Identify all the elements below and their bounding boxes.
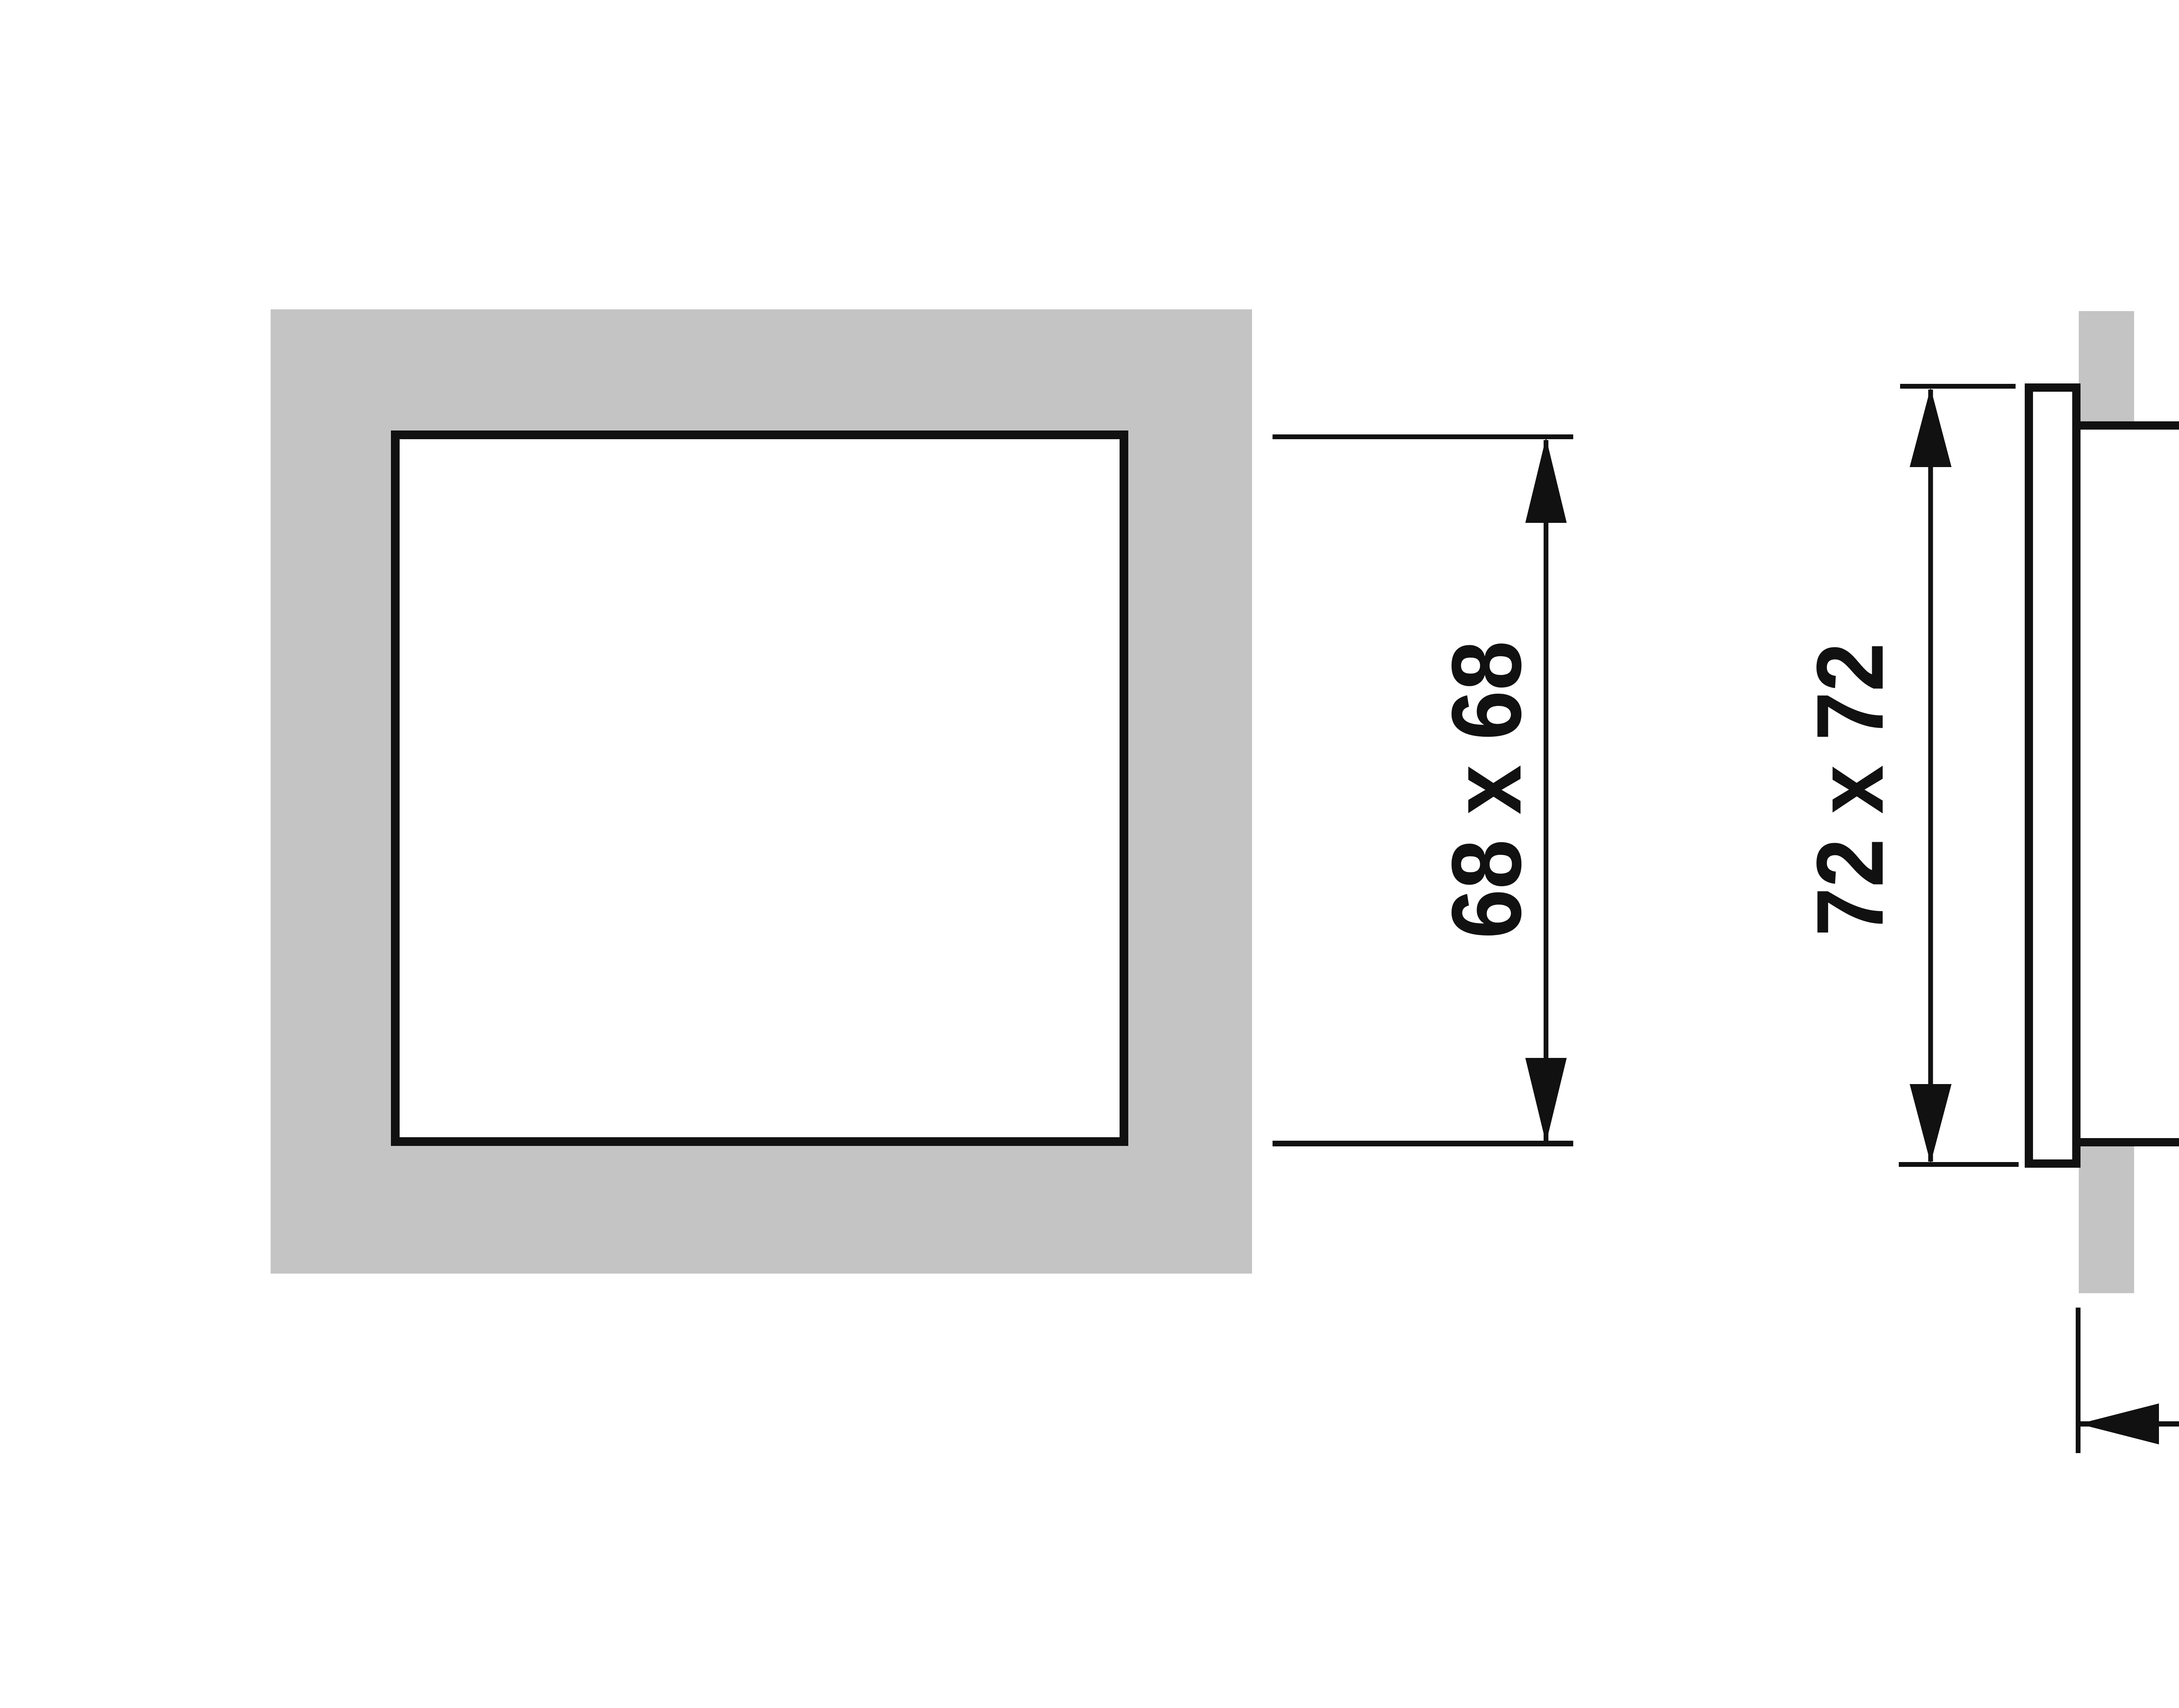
- svg-text:72 x 72: 72 x 72: [1797, 643, 1903, 936]
- svg-text:68 x 68: 68 x 68: [1431, 641, 1541, 939]
